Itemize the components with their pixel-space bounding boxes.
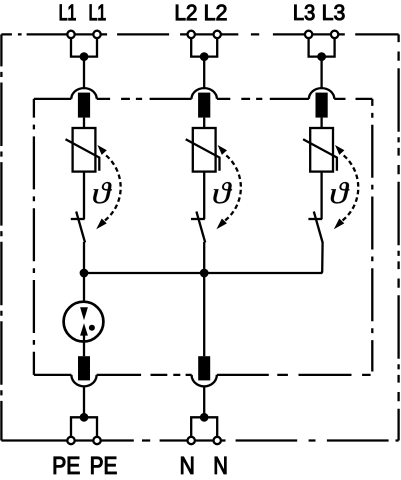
terminal circle PE (left) [67,437,74,444]
terminal label L3 (right) [323,5,332,20]
terminal label L2 (left) [176,5,185,20]
thermal disconnector L2: open switch blade [196,212,205,243]
thermal disconnector L3: open switch blade [314,212,323,243]
thermal disconnector L1: open switch blade [76,212,85,243]
device enclosure border: top edge (dash-dot) through line-side terminals [1,33,66,35]
terminal circle L3 (right) [331,31,338,38]
temperature symbol theta (L1 disconnector) [93,182,112,203]
wire bus down to spark gap [83,273,85,309]
plug-in contact cup (module bottom, N path) [192,375,217,387]
double terminal PE parallel link wire [71,417,97,437]
double terminal L2/L2 parallel link wire [191,38,217,57]
trip arc arrowhead toward varistor L1 [97,145,106,155]
plug-in contact blade (black) L2 [198,93,210,118]
terminal circle N (left) [188,437,195,444]
wire spark gap down to PE plug contact [83,335,85,357]
plug-in contact blade (black) L1 [78,93,90,118]
device enclosure border: left edge [0,34,2,440]
plug-in contact cup (module bottom, PE path) [71,375,96,386]
thermal trip action arc (dashed) L2 [221,154,241,224]
varistor L2 diagonal stroke [186,139,220,171]
varistor MOV L2 body [193,128,216,172]
spark gap to PE: circle [64,302,104,342]
varistor MOV L1 body [73,128,96,172]
temperature symbol theta (L3 disconnector) [331,182,350,203]
wire L1 switch to bus [83,242,85,273]
spark gap trigger dot [89,325,95,331]
trip arc arrowhead toward switch L2 [216,219,227,230]
trip arc arrowhead toward varistor L2 [218,145,227,155]
plug-in contact blade (black) toward N [198,356,210,380]
terminal label N (left) [181,457,193,474]
wire cup down to N junction [203,386,205,417]
double terminal L3/L3 parallel link wire [309,38,335,57]
junction dot above N terminals [200,413,209,422]
plug-in contact arch (module top, L2 path) [192,88,217,99]
thermal disconnector L1: fixed contact tick [71,218,85,220]
device enclosure border: bottom edge through PE and N terminals [1,439,66,441]
device enclosure border: right edge [397,34,399,440]
wire L3 switch to bus corner [321,242,323,273]
temperature symbol theta (L2 disconnector) [213,182,232,203]
thermal disconnector L2: fixed contact tick [191,218,205,220]
thermal trip action arc (dashed) L3 [338,154,358,224]
double terminal L1/L1 parallel link wire [71,38,97,57]
protection module border: left edge [33,99,35,375]
junction dot below L2 terminals [200,52,209,61]
terminal circle L1 (right) [93,31,100,38]
terminal circle L2 (right) [214,31,221,38]
varistor L1 diagonal stroke [66,139,100,171]
wire L2 down to plug-in contact [203,57,205,89]
wire contact to varistor L3 [320,118,322,128]
trip arc arrowhead toward switch L1 [96,219,107,230]
common bus wire joining the three arrester branches [84,272,322,274]
protection module border: bottom edge (dashed, broken by plug cups) [34,374,72,376]
spark gap lower electrode arrow (points up) [80,323,88,335]
wire contact to varistor L1 [83,118,85,128]
terminal label PE (right) [91,457,102,474]
terminal label L3 (left) [294,5,303,20]
wire L2 bus down to N plug contact [203,273,205,356]
junction dot above PE terminals [80,413,89,422]
thermal trip action arc (dashed) L1 [101,154,121,224]
terminal label PE (left) [54,457,65,474]
double terminal N parallel link wire [191,417,217,437]
thermal disconnector L3: fixed contact tick [308,218,322,220]
terminal circle L2 (left) [188,31,195,38]
plug-in contact arch (module top, L1 path) [71,88,96,99]
wire L2 switch to bus [203,242,205,273]
wire varistor to thermal disconnector L1 [83,172,85,219]
protection module border: top edge (dashed, broken by plug arches) [34,98,71,100]
plug-in contact blade (black) L3 [316,93,328,118]
junction dot below L3 terminals [317,52,326,61]
terminal circle N (right) [214,437,221,444]
wire cup down to PE junction [83,386,85,417]
bus junction dot at L2 branch [200,269,209,278]
plug-in contact arch (module top, L3 path) [309,88,334,99]
protection module border: right edge [371,99,373,372]
trip arc arrowhead toward switch L3 [334,219,345,230]
bus junction dot at L1 branch [80,269,89,278]
wire varistor to thermal disconnector L2 [203,172,205,219]
terminal label L1 (right) [90,5,97,21]
wire L1 down to plug-in contact [83,57,85,89]
trip arc arrowhead toward varistor L3 [335,145,344,155]
wire contact to varistor L2 [203,118,205,128]
junction dot below L1 terminals [80,52,89,61]
varistor MOV L3 body [310,128,333,172]
terminal circle L1 (left) [67,31,74,38]
terminal label L2 (right) [205,5,214,20]
terminal circle PE (right) [93,437,100,444]
varistor L3 diagonal stroke [303,139,337,171]
plug-in contact blade (black) toward PE [78,356,90,380]
terminal circle L3 (left) [305,31,312,38]
wire varistor to thermal disconnector L3 [320,172,322,219]
terminal label L1 (left) [60,5,67,21]
spark gap upper electrode arrow (points down) [80,307,88,320]
wire L3 down to plug-in contact [320,57,322,89]
terminal label N (right) [215,457,226,474]
